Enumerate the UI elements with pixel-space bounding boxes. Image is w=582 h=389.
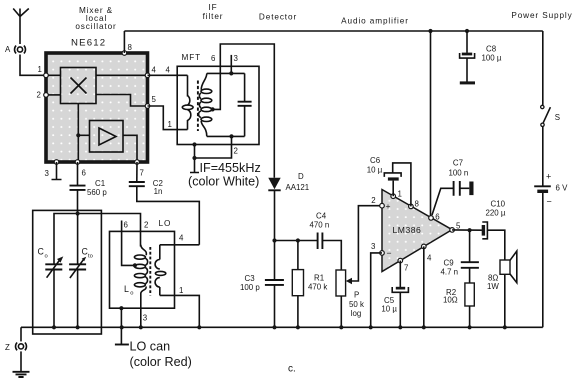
svg-text:6: 6 [435,213,440,222]
svg-text:4.7 n: 4.7 n [441,268,459,277]
svg-text:(color White): (color White) [188,175,259,189]
ground stub U1 pin 3 [52,162,62,180]
svg-text:8: 8 [415,200,420,209]
node: CTo ground [76,325,80,329]
capacitor C3 [240,274,284,292]
svg-text:470 k: 470 k [308,283,327,292]
capacitor C7 100n with ground bar [432,158,474,215]
svg-text:3: 3 [45,169,50,178]
wire U2 pin 7 to C5 [399,261,401,287]
section label: IF filter [203,3,224,21]
pin 3 of U1 [45,160,59,178]
wire U1 pin 8 to supply rail [123,31,125,53]
pin 4 of U1 [145,66,156,78]
svg-text:C7: C7 [453,158,463,167]
svg-text:S: S [555,113,560,122]
svg-text:2: 2 [234,147,238,156]
switch S [541,31,560,127]
svg-text:8: 8 [128,43,133,52]
svg-text:4: 4 [166,66,171,75]
node: output junction [468,228,472,232]
wire MFT pin 1 to U1 pin 5 [148,106,188,130]
pin 2 of U2 with + [371,196,390,211]
wire C6 to U2 pin 8 [393,163,411,207]
pin 6 of U1 [75,160,86,178]
capacitor C6 10u [367,156,401,181]
node: P ground [339,325,343,329]
svg-text:C: C [38,247,45,257]
capacitor C2 [129,162,163,196]
tuning gang box [33,210,102,334]
svg-text:6: 6 [211,54,216,63]
svg-text:4: 4 [427,254,432,263]
ground bus wire [21,326,543,328]
wire U2 output to C10 [452,229,482,231]
svg-text:10Ω: 10Ω [443,296,458,305]
svg-text:C1: C1 [95,179,105,188]
section label: Mixer & local oscillator [75,6,116,31]
wire U1 pin1 to mixer input [46,74,61,76]
node: C1 to tank [76,211,80,215]
speaker 8ohm 1W [487,251,517,327]
transformer LO can [110,219,175,308]
wire MFT pin 2 to can ground [195,136,238,158]
wire U2 pin1 to C6 [392,181,394,197]
svg-text:6 V: 6 V [556,184,569,193]
svg-text:LM386: LM386 [393,225,422,235]
svg-text:A: A [5,45,11,54]
svg-text:MFT: MFT [182,53,202,62]
wire junction to internal amplifier [78,134,89,136]
pin 5 output of U2 [450,221,461,232]
potentiometer P 50k log [336,206,382,328]
svg-text:Power Supply: Power Supply [511,11,572,20]
svg-text:C6: C6 [370,156,381,165]
wire oscillator tank top [54,214,141,265]
svg-text:Z: Z [5,343,10,352]
svg-text:IF: IF [208,3,217,12]
pin 6 of U2 [429,213,441,222]
svg-text:1W: 1W [487,282,499,291]
MFT primary winding [182,75,193,129]
svg-text:D: D [298,172,304,181]
LO core [149,247,151,295]
node: R1 ground [296,325,300,329]
wire C2 to LO pin 4 [137,186,200,245]
wire U1 pin4 to MFT pin 4 [148,66,188,76]
wire mixer output to pin 4 [96,74,148,76]
svg-text:100 µ: 100 µ [482,54,502,63]
pin 8 of U2 [409,200,420,209]
svg-text:LO can: LO can [130,340,171,354]
svg-text:10 µ: 10 µ [367,165,383,174]
capacitor C4 [310,211,330,249]
svg-text:7: 7 [140,169,144,178]
capacitor C9 4.7n [441,230,479,283]
variable capacitor Co [38,247,64,328]
IC U1 NE612 body [46,38,148,163]
antenna [13,9,29,45]
svg-text:7: 7 [404,264,408,273]
label IF=455kHz (color White) [188,161,261,189]
LO pin 3 wire to ground bus [139,314,148,330]
wire amplifier output to pin 7 [123,135,137,162]
svg-text:5: 5 [152,95,157,104]
svg-text:4: 4 [179,233,184,242]
supply rail wire [124,30,542,32]
node: U2 pin3 ground [369,325,373,329]
resistor R1 [292,241,327,328]
wire MFT secondary top / pin 3 node [207,72,245,74]
svg-text:100 n: 100 n [449,168,469,177]
pin 5 of U1 [145,95,156,108]
MFT pin 6 tap wire to detector [211,44,275,178]
svg-text:C10: C10 [491,200,506,209]
svg-text:P: P [354,291,359,300]
svg-text:C9: C9 [444,259,455,268]
connector Z [5,327,26,352]
earth ground [13,351,30,377]
svg-text:−: − [547,197,552,207]
wire mixer output to pin 5 [96,95,148,107]
MFT can ground stub [190,142,199,172]
pin 2 of U1 [37,91,49,100]
svg-text:C4: C4 [316,211,327,220]
MFT secondary winding [199,73,212,136]
node: detector output [272,238,276,242]
wire U2 pin 3 to ground bus [371,253,382,327]
svg-text:C3: C3 [245,274,256,283]
amplifier block inside U1 [90,121,124,153]
wire C4 to potentiometer top [322,241,341,271]
svg-text:oscillator: oscillator [75,22,116,31]
svg-text:L: L [124,284,129,294]
svg-text:LO: LO [159,219,172,228]
node: U2 pin4 ground [422,325,426,329]
svg-text:220 µ: 220 µ [486,209,506,218]
svg-text:o: o [45,254,48,260]
LO can ground stub [115,306,129,344]
pin 4 of U2 [422,244,433,262]
resistor R2 10ohm [443,283,474,327]
LO primary winding [134,245,147,327]
svg-text:3: 3 [234,54,239,63]
pin 1 of U2 [391,190,402,199]
svg-text:filter: filter [203,12,224,21]
pin 8 of U1 [122,43,132,56]
svg-text:1: 1 [168,120,172,129]
svg-text:AA121: AA121 [286,183,310,192]
svg-text:5: 5 [456,221,461,230]
wire diode cathode down to ground bus [274,190,276,327]
diode D AA121 [268,172,309,192]
wire detector output to C4 and R1 [275,240,318,242]
LO pin 4 wire [160,233,200,245]
MFT pin 3 stub [229,54,238,76]
svg-text:6: 6 [124,221,129,230]
node: R2 ground [468,325,472,329]
pin 7 of U1 [135,160,144,178]
svg-text:470 n: 470 n [310,220,330,229]
svg-text:c.: c. [288,364,296,375]
svg-text:C8: C8 [486,45,497,54]
pin 1 of U1 [38,65,49,78]
capacitor C8 100u [460,29,502,82]
LO pin 1 wire to ground bus [160,286,202,329]
capacitor C10 220u [482,200,506,261]
node: C3 ground [272,325,276,329]
pin 7 of U2 [398,258,408,272]
svg-text:2: 2 [371,196,375,205]
svg-text:560 p: 560 p [87,188,107,197]
svg-text:10 µ: 10 µ [381,305,397,314]
svg-text:−: − [387,248,392,258]
svg-text:1: 1 [38,65,42,74]
svg-text:log: log [351,309,362,318]
svg-text:+: + [386,201,391,211]
wire U1 pin2 to mixer input [46,94,61,96]
svg-text:4: 4 [152,66,157,75]
MFT core [197,81,199,132]
svg-text:1: 1 [179,286,183,295]
svg-text:NE612: NE612 [71,38,106,49]
svg-text:2: 2 [144,221,148,230]
svg-text:to: to [88,254,93,260]
svg-text:IF=455kHz: IF=455kHz [200,161,261,175]
svg-text:1: 1 [398,190,402,199]
battery 6V [534,127,568,328]
mixer block inside U1 [61,68,97,104]
svg-text:6: 6 [82,169,87,178]
LO secondary winding [124,245,166,297]
svg-text:Audio amplifier: Audio amplifier [341,17,409,26]
wire U2 pin 4 to ground bus [423,246,425,327]
svg-text:2: 2 [37,91,41,100]
connector A [5,45,25,54]
op-amp U2 LM386 body [382,190,452,272]
capacitor C5 10u [381,287,408,328]
transformer MFT can [177,53,259,145]
node: speaker ground [503,325,507,329]
node: C5 ground [398,325,402,329]
svg-text:R1: R1 [314,274,324,283]
svg-text:50 k: 50 k [349,300,364,309]
node: R1 top [296,238,300,242]
wire antenna to NE612 pin 1 [20,55,46,76]
svg-text:o: o [130,291,133,297]
trimmer capacitor CTo [69,214,93,328]
node: Co ground [52,325,56,329]
svg-text:Detector: Detector [259,13,297,22]
MFT internal capacitor [238,73,252,136]
wire mixer bottom to pin 6 [77,104,79,163]
svg-text:(color Red): (color Red) [130,355,192,369]
svg-text:3: 3 [371,242,376,251]
svg-text:1n: 1n [154,187,163,196]
svg-text:100 p: 100 p [240,283,260,292]
capacitor C1 [70,162,108,214]
wire supply rail to U2 pin 6 [428,29,432,216]
wire MFT secondary bottom [207,134,245,138]
pin 3 of U2 with - [371,242,392,258]
label LO can (color Red) [130,340,192,370]
ground bar below C8 [460,81,475,84]
node: oscillator junction inside U1 [76,133,80,137]
LO pin 6 tap wire [122,221,137,268]
svg-text:+: + [546,172,551,182]
svg-text:3: 3 [143,314,148,323]
